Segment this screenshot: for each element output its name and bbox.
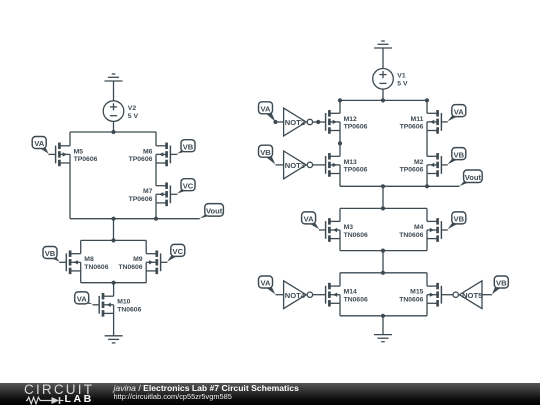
node M10 drain junction bbox=[112, 281, 116, 285]
wire output rail (right circuit) bbox=[340, 185, 460, 187]
wire to ground bbox=[382, 316, 384, 335]
node M12 source junction bbox=[338, 98, 342, 102]
ground G2 (top) bbox=[105, 74, 123, 81]
svg-text:VB: VB bbox=[496, 279, 507, 288]
wire M2 drain down bbox=[426, 174, 428, 187]
svg-text:Vout: Vout bbox=[465, 173, 482, 182]
wire top rail (left circuit) bbox=[70, 131, 156, 133]
svg-text:TN0606: TN0606 bbox=[117, 307, 141, 314]
flag VA (M11 gate) bbox=[448, 105, 466, 122]
wire M8 gate lead bbox=[59, 261, 66, 263]
svg-text:M13: M13 bbox=[344, 159, 357, 166]
wire M14/M15 top rail bbox=[340, 272, 427, 274]
wire V1 ground lead bbox=[382, 48, 384, 69]
ground G3 (top of V1) bbox=[374, 41, 392, 48]
voltage source V2 5 V bbox=[103, 101, 124, 122]
flag VB (M8 gate) bbox=[43, 247, 59, 262]
transistor M8 (TN0606) bbox=[66, 250, 80, 274]
node M7 drain junction bbox=[154, 217, 158, 221]
wire M10 gate lead bbox=[93, 304, 100, 306]
wire V2 ground lead bbox=[113, 81, 115, 101]
wire M11 drain to M2 source bbox=[426, 131, 428, 157]
wire rail to M4 drain bbox=[426, 208, 428, 221]
svg-text:VA: VA bbox=[454, 107, 465, 116]
svg-text:TP0606: TP0606 bbox=[400, 167, 424, 174]
svg-text:VC: VC bbox=[173, 247, 184, 256]
wire to M14/M15 block bbox=[382, 251, 384, 273]
wire M8/M9 top rail bbox=[81, 239, 147, 241]
wire to M3/M4 block bbox=[382, 186, 384, 208]
flag VA (M10 gate) bbox=[75, 292, 93, 304]
svg-text:M11: M11 bbox=[411, 116, 424, 123]
svg-text:M6: M6 bbox=[143, 148, 153, 155]
svg-text:VB: VB bbox=[183, 142, 194, 151]
node V1+ junction bbox=[381, 98, 385, 102]
svg-text:VC: VC bbox=[183, 181, 194, 190]
svg-text:M3: M3 bbox=[344, 224, 354, 231]
wire M4 source down bbox=[426, 239, 428, 251]
svg-text:TN0606: TN0606 bbox=[344, 297, 368, 304]
svg-text:TP0606: TP0606 bbox=[129, 156, 153, 163]
wire rail to M12 source bbox=[339, 100, 341, 113]
wire M3 gate lead bbox=[319, 229, 326, 231]
svg-text:TP0606: TP0606 bbox=[74, 156, 98, 163]
node V2+ junction bbox=[111, 130, 115, 134]
wire M2 gate lead bbox=[441, 164, 447, 166]
wire rail to M15 drain bbox=[426, 273, 428, 286]
wire rail to M5 source bbox=[69, 132, 71, 146]
wire rail to M6 source bbox=[155, 132, 157, 146]
transistor M13 (TP0606) bbox=[326, 153, 340, 177]
wire M14/M15 source rail bbox=[340, 315, 427, 317]
flag VB (M4 gate) bbox=[448, 212, 466, 229]
ground G1 (left circuit) bbox=[105, 336, 123, 343]
wire output rail (left circuit) bbox=[70, 218, 200, 220]
flag VB (M6 gate) bbox=[177, 140, 195, 154]
svg-text:VA: VA bbox=[261, 279, 272, 288]
wire M9 gate lead bbox=[161, 261, 168, 263]
node M3/M4 source junction bbox=[381, 249, 385, 253]
flag VB (M2 gate) bbox=[448, 148, 466, 165]
wire rail to M14 drain bbox=[339, 273, 341, 286]
wire M13 drain down bbox=[339, 174, 341, 187]
flag VA (NOT2 input) bbox=[259, 102, 276, 122]
svg-text:TP0606: TP0606 bbox=[344, 124, 368, 131]
node M12-M13 junction bbox=[338, 141, 342, 145]
svg-text:TP0606: TP0606 bbox=[344, 167, 368, 174]
flag VB (NOT5 input) bbox=[492, 276, 508, 294]
wire M5 gate lead bbox=[49, 153, 56, 155]
wire M6 gate lead bbox=[170, 153, 177, 155]
transistor M3 (TN0606) bbox=[326, 218, 340, 242]
footer line 2: url bbox=[114, 393, 232, 400]
svg-text:VA: VA bbox=[261, 105, 272, 114]
inverter NOT5 bbox=[453, 281, 483, 309]
wire M4 gate lead bbox=[441, 229, 447, 231]
voltage source V1 5 V bbox=[373, 69, 394, 90]
node M8/M9 drain rail junction bbox=[111, 238, 115, 242]
flag VC (M9 gate) bbox=[167, 244, 185, 261]
svg-text:M2: M2 bbox=[414, 159, 424, 166]
transistor M10 (TN0606) bbox=[99, 293, 113, 317]
wire NOT2 input bbox=[276, 121, 284, 123]
wire M15 gate to NOT5 output bbox=[441, 294, 453, 296]
wire M15 source down bbox=[426, 303, 428, 316]
transistor M14 (TN0606) bbox=[326, 283, 340, 307]
node right output junction bbox=[381, 184, 385, 188]
wire M10 source to ground bbox=[113, 313, 115, 335]
wire M8/M9 source rail bbox=[81, 282, 147, 284]
transistor M11 (TP0606) bbox=[427, 110, 441, 134]
ground G4 (right circuit) bbox=[374, 335, 392, 342]
wire rail to M9 drain bbox=[145, 240, 147, 253]
svg-text:M8: M8 bbox=[84, 256, 94, 263]
wire M5 drain down bbox=[69, 163, 71, 219]
svg-text:M7: M7 bbox=[143, 188, 153, 195]
svg-text:TP0606: TP0606 bbox=[129, 196, 153, 203]
svg-text:VA: VA bbox=[304, 215, 315, 224]
svg-text:5 V: 5 V bbox=[128, 113, 139, 120]
flag VA (M3 gate) bbox=[302, 212, 320, 229]
node left output junction bbox=[111, 217, 115, 221]
transistor M9 (TN0606) bbox=[146, 250, 160, 274]
wire M3/M4 source rail bbox=[340, 250, 427, 252]
transistor M5 (TP0606) bbox=[56, 143, 70, 167]
transistor M4 (TN0606) bbox=[427, 218, 441, 242]
wire M7 gate lead bbox=[170, 193, 177, 195]
transistor M7 (TP0606) bbox=[156, 182, 170, 206]
footer bar bbox=[0, 383, 540, 405]
CircuitLab logo resistor-diode glyph bbox=[26, 396, 64, 405]
svg-text:M9: M9 bbox=[133, 256, 143, 263]
svg-text:VA: VA bbox=[77, 295, 88, 304]
transistor M15 (TN0606) bbox=[427, 283, 441, 307]
svg-text:TN0606: TN0606 bbox=[399, 297, 423, 304]
transistor M12 (TP0606) bbox=[326, 110, 340, 134]
node NOT2 output junction bbox=[316, 120, 320, 124]
svg-text:VA: VA bbox=[34, 139, 45, 148]
svg-text:M10: M10 bbox=[117, 299, 130, 306]
flag VA (M5 gate) bbox=[32, 137, 49, 154]
wire to M10 drain bbox=[113, 283, 115, 297]
wire M11 gate lead bbox=[441, 121, 447, 123]
wire to M8/M9 block bbox=[113, 219, 115, 241]
svg-text:Vout: Vout bbox=[206, 207, 223, 216]
wire V2 to rail bbox=[113, 121, 115, 132]
wire M7 drain down bbox=[155, 203, 157, 219]
wire M14 source down bbox=[339, 303, 341, 316]
wire V1 to rail bbox=[382, 89, 384, 100]
transistor M2 (TP0606) bbox=[427, 153, 441, 177]
svg-text:VB: VB bbox=[454, 150, 465, 159]
svg-text:VB: VB bbox=[454, 215, 465, 224]
wire NOT3 output to M13 gate bbox=[313, 164, 326, 166]
svg-text:M15: M15 bbox=[410, 289, 423, 296]
wire M3 source down bbox=[339, 239, 341, 251]
flag Vout (right circuit) bbox=[460, 170, 483, 186]
svg-text:M12: M12 bbox=[344, 116, 357, 123]
node NOT2 input junction bbox=[273, 120, 277, 124]
flag VC (M7 gate) bbox=[177, 179, 195, 194]
transistor M6 (TP0606) bbox=[156, 143, 170, 167]
node M3/M4 drain rail junction bbox=[381, 206, 385, 210]
svg-text:VB: VB bbox=[45, 249, 56, 258]
svg-text:NOT3: NOT3 bbox=[285, 161, 305, 170]
flag Vout (left circuit) bbox=[200, 204, 224, 219]
footer line 1: author / title bbox=[114, 384, 299, 393]
node M14/M15 drain rail junction bbox=[381, 271, 385, 275]
node ground junction bbox=[381, 314, 385, 318]
wire M9 source down bbox=[145, 271, 147, 283]
svg-text:M4: M4 bbox=[414, 224, 424, 231]
wire NOT4 output to M14 gate bbox=[313, 294, 326, 296]
svg-text:V1: V1 bbox=[397, 73, 406, 80]
svg-text:NOT5: NOT5 bbox=[462, 291, 483, 300]
CircuitLab logo text CIRCUIT bbox=[24, 383, 94, 397]
wire NOT4 input bbox=[276, 294, 284, 296]
wire M12 drain to M13 source bbox=[339, 131, 341, 157]
wire rail to M11 source bbox=[426, 100, 428, 113]
svg-text:TN0606: TN0606 bbox=[84, 264, 108, 271]
svg-text:TN0606: TN0606 bbox=[344, 232, 368, 239]
node M2 drain junction bbox=[425, 184, 429, 188]
svg-text:M5: M5 bbox=[74, 148, 84, 155]
svg-text:TN0606: TN0606 bbox=[118, 264, 142, 271]
svg-text:NOT2: NOT2 bbox=[285, 118, 305, 127]
svg-text:NOT4: NOT4 bbox=[285, 291, 306, 300]
wire NOT2 output to M12 gate bbox=[313, 121, 326, 123]
wire M6 drain to M7 source bbox=[155, 163, 157, 186]
wire NOT5 input bbox=[482, 294, 492, 296]
svg-text:M14: M14 bbox=[344, 289, 357, 296]
flag VA (NOT4 input) bbox=[259, 276, 276, 294]
wire top rail (right circuit) bbox=[340, 99, 427, 101]
svg-text:VB: VB bbox=[260, 148, 271, 157]
svg-text:5 V: 5 V bbox=[397, 81, 408, 88]
flag VB (NOT3 input) bbox=[259, 145, 276, 164]
inverter NOT2 bbox=[284, 108, 313, 136]
svg-text:TP0606: TP0606 bbox=[400, 124, 424, 131]
inverter NOT4 bbox=[284, 281, 313, 309]
wire NOT3 input bbox=[276, 164, 284, 166]
svg-text:TN0606: TN0606 bbox=[399, 232, 423, 239]
node M11 source junction bbox=[425, 98, 429, 102]
wire M3/M4 top rail bbox=[340, 207, 427, 209]
wire rail to M8 drain bbox=[80, 240, 82, 253]
CircuitLab logo text LAB bbox=[65, 394, 94, 405]
inverter NOT3 bbox=[284, 151, 313, 179]
wire M8 source down bbox=[80, 271, 82, 283]
svg-text:V2: V2 bbox=[128, 105, 137, 112]
wire rail to M3 drain bbox=[339, 208, 341, 221]
